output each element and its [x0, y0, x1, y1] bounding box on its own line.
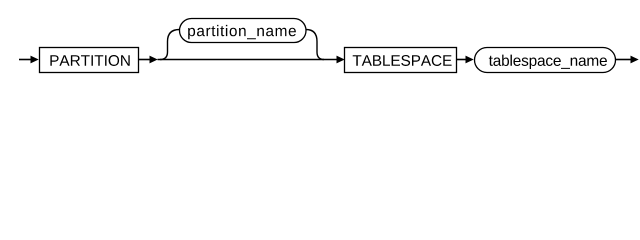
label text TABLESPACE [353, 55, 452, 66]
wire: entry line [19, 59, 32, 61]
wire after PARTITION [139, 59, 151, 61]
wire: skip line (optional bypass baseline) [158, 59, 338, 61]
wire: branch curve up to partition_name [160, 30, 180, 60]
arrowhead at branch point [150, 56, 158, 64]
nonterminal stadium tablespace_name [475, 48, 616, 73]
wire after TABLESPACE [457, 59, 467, 61]
terminal box PARTITION [40, 48, 139, 73]
arrowhead into TABLESPACE [337, 56, 345, 64]
wire: merge curve down from partition_name [306, 30, 324, 60]
label text PARTITION [50, 55, 129, 66]
label text partition_name [188, 25, 296, 39]
terminal box TABLESPACE [345, 48, 457, 73]
arrowhead at end [631, 56, 639, 64]
nonterminal stadium partition_name [180, 19, 307, 43]
wire: exit line [616, 59, 632, 61]
arrowhead into PARTITION [31, 56, 39, 64]
arrowhead into tablespace_name [466, 56, 474, 64]
label text tablespace_name [489, 55, 607, 69]
